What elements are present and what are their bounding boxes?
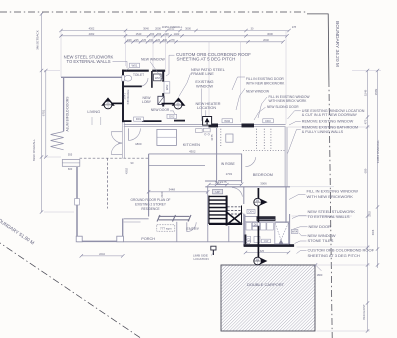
svg-text:278: 278 <box>170 39 175 42</box>
svg-text:3000: 3000 <box>267 32 273 36</box>
svg-text:278: 278 <box>292 26 297 29</box>
svg-text:2100: 2100 <box>160 191 164 198</box>
svg-text:FILL IN EXISTING WINDOW: FILL IN EXISTING WINDOW <box>307 188 359 193</box>
svg-text:LOBY: LOBY <box>142 100 152 104</box>
svg-text:W02: W02 <box>165 84 169 90</box>
svg-text:LIVING: LIVING <box>87 109 100 114</box>
svg-text:NEW DOOR: NEW DOOR <box>151 108 170 112</box>
svg-text:PORCH: PORCH <box>141 237 155 241</box>
svg-text:2041: 2041 <box>123 93 127 100</box>
svg-text:1540: 1540 <box>136 32 142 36</box>
svg-text:& FULLY LINING WALLS: & FULLY LINING WALLS <box>302 130 344 134</box>
svg-text:4302: 4302 <box>89 32 95 36</box>
svg-text:8910 OVERALL: 8910 OVERALL <box>32 139 36 161</box>
svg-text:700: 700 <box>157 32 162 36</box>
svg-text:1512: 1512 <box>169 27 175 31</box>
svg-text:W04: W04 <box>292 230 298 234</box>
svg-text:WITH NEW BRICKWORK: WITH NEW BRICKWORK <box>246 81 285 85</box>
svg-text:225: 225 <box>156 39 161 42</box>
svg-text:GROUND FLOOR PLAN OF: GROUND FLOOR PLAN OF <box>131 198 171 202</box>
svg-text:4302: 4302 <box>189 149 196 153</box>
svg-text:D03: D03 <box>265 119 271 123</box>
svg-text:TO EXTERNAL WALLS: TO EXTERNAL WALLS <box>308 214 350 219</box>
svg-text:TOILET: TOILET <box>133 73 144 77</box>
svg-text:8343 EXIST: 8343 EXIST <box>362 304 366 320</box>
svg-text:W02: W02 <box>224 119 230 123</box>
svg-text:NEW DOOR: NEW DOOR <box>309 224 332 229</box>
svg-text:LOCATION: LOCATION <box>194 257 209 261</box>
svg-text:D02: D02 <box>169 115 175 119</box>
svg-text:BOUNDARY 34.20 M: BOUNDARY 34.20 M <box>334 21 340 67</box>
svg-text:6701: 6701 <box>42 109 46 116</box>
svg-text:725: 725 <box>142 39 147 42</box>
svg-text:DOUBLE CARPORT: DOUBLE CARPORT <box>247 282 285 287</box>
svg-text:3448: 3448 <box>169 188 176 192</box>
svg-text:D04: D04 <box>248 210 254 214</box>
svg-text:LOCATION: LOCATION <box>197 106 216 110</box>
svg-text:528: 528 <box>127 39 132 42</box>
svg-text:1703: 1703 <box>226 172 233 176</box>
svg-text:NEW WINDOW: NEW WINDOW <box>246 90 270 94</box>
svg-text:800: 800 <box>163 39 168 42</box>
svg-text:ALUM BIFOLD DOORS: ALUM BIFOLD DOORS <box>66 96 70 132</box>
svg-text:TO EXTERNAL WALLS: TO EXTERNAL WALLS <box>66 59 110 64</box>
svg-text:SHEETING AT 3 DEG PITCH: SHEETING AT 3 DEG PITCH <box>308 253 360 258</box>
svg-text:928: 928 <box>164 32 169 36</box>
svg-text:AA: AA <box>176 102 180 105</box>
svg-text:NEW WINDOW: NEW WINDOW <box>141 57 166 61</box>
svg-text:IN ROBE: IN ROBE <box>221 162 236 166</box>
svg-text:D01: D01 <box>136 117 142 121</box>
svg-text:WINDOW: WINDOW <box>196 83 213 88</box>
svg-text:3M SETBACK: 3M SETBACK <box>35 29 39 50</box>
svg-text:700: 700 <box>149 39 154 42</box>
svg-text:2175: 2175 <box>220 180 227 184</box>
svg-text:FRAME LINE: FRAME LINE <box>191 72 214 76</box>
svg-text:1503: 1503 <box>369 211 372 217</box>
svg-text:D05: D05 <box>254 223 259 226</box>
svg-text:3175: 3175 <box>210 134 214 141</box>
svg-text:BEDROOM: BEDROOM <box>253 172 273 177</box>
svg-text:WITH NEW BRICK WORK: WITH NEW BRICK WORK <box>269 99 308 103</box>
svg-text:4302: 4302 <box>89 27 95 31</box>
svg-text:WM: WM <box>155 76 161 80</box>
svg-text:KITCHEN: KITCHEN <box>183 142 200 147</box>
svg-text:555: 555 <box>68 152 73 156</box>
svg-text:3589: 3589 <box>374 88 378 95</box>
svg-text:BB: BB <box>256 200 260 202</box>
svg-text:FILL IN EXISTING DOOR: FILL IN EXISTING DOOR <box>246 77 284 81</box>
svg-text:2040: 2040 <box>263 38 269 42</box>
svg-text:ENTRY: ENTRY <box>186 227 199 231</box>
svg-text:225: 225 <box>134 39 139 42</box>
svg-text:777 sqm: 777 sqm <box>160 227 172 231</box>
svg-text:600: 600 <box>68 167 73 171</box>
svg-text:4302: 4302 <box>125 167 129 174</box>
svg-text:NEW SLIDING DOOR: NEW SLIDING DOOR <box>267 105 299 109</box>
svg-text:REMOVE EXISTING WINDOW: REMOVE EXISTING WINDOW <box>302 120 354 124</box>
svg-text:1800: 1800 <box>317 273 323 277</box>
svg-text:AA: AA <box>106 102 110 105</box>
svg-text:3006: 3006 <box>260 182 267 186</box>
svg-text:3249: 3249 <box>363 89 367 96</box>
svg-text:1800: 1800 <box>135 142 142 146</box>
svg-text:475: 475 <box>363 119 367 124</box>
svg-text:WITH NEW BRICKWORK: WITH NEW BRICKWORK <box>307 194 354 199</box>
svg-text:2000: 2000 <box>155 27 161 31</box>
svg-text:REMOVE EXISTING BATHROOM: REMOVE EXISTING BATHROOM <box>302 126 358 130</box>
svg-text:STONE TILES: STONE TILES <box>308 238 334 243</box>
svg-text:SHEETING AT 5 DEG PITCH: SHEETING AT 5 DEG PITCH <box>177 57 236 62</box>
svg-text:700: 700 <box>150 32 155 36</box>
svg-text:3006: 3006 <box>372 229 375 235</box>
svg-text:325: 325 <box>260 250 265 253</box>
svg-text:CUSTOM ORB COLORBOND ROOF: CUSTOM ORB COLORBOND ROOF <box>308 248 375 253</box>
svg-text:& CUT IN & FIT NEW DOORWAY: & CUT IN & FIT NEW DOORWAY <box>302 113 358 117</box>
svg-text:RESIDENCE: RESIDENCE <box>141 207 159 211</box>
svg-text:W01: W01 <box>132 64 138 68</box>
svg-text:BB: BB <box>256 259 260 261</box>
svg-text:WC: WC <box>247 241 251 243</box>
svg-text:11954 OVERALL: 11954 OVERALL <box>376 139 380 163</box>
svg-text:1402: 1402 <box>174 32 180 36</box>
svg-text:3040: 3040 <box>143 27 149 31</box>
svg-text:2244: 2244 <box>99 252 105 256</box>
svg-text:609: 609 <box>363 168 367 173</box>
svg-text:UP: UP <box>216 190 220 194</box>
svg-text:3000: 3000 <box>185 27 191 31</box>
svg-text:EXISTING 2 STOREY: EXISTING 2 STOREY <box>135 202 167 206</box>
